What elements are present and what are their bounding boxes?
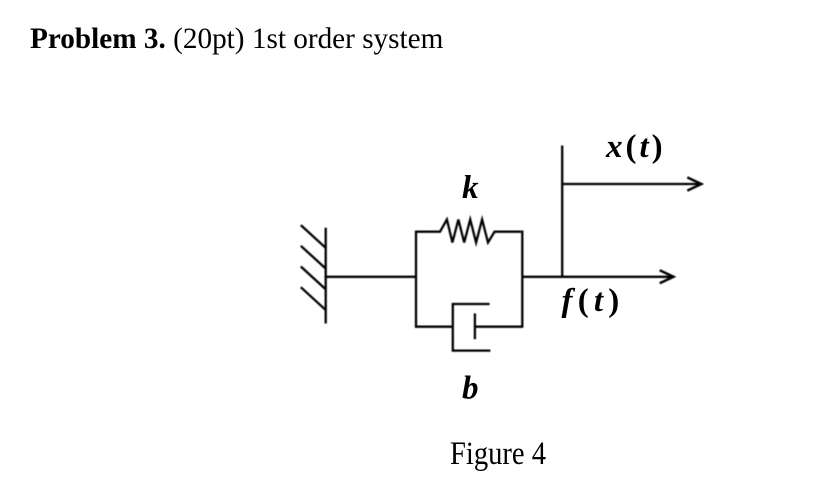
- svg-text:k: k: [462, 170, 479, 206]
- svg-text:x(t): x(t): [605, 129, 666, 165]
- svg-text:b: b: [462, 370, 479, 406]
- svg-text:f(t): f(t): [562, 283, 625, 319]
